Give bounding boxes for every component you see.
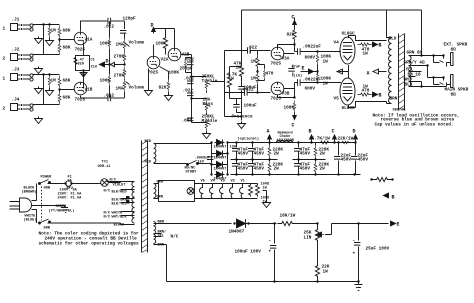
svg-text:Treble: Treble — [202, 79, 218, 84]
svg-text:1W: 1W — [263, 187, 268, 191]
svg-text:N/C: N/C — [110, 178, 117, 183]
svg-text:6BU7GH: 6BU7GH — [393, 109, 406, 113]
svg-text:V5: V5 — [334, 97, 340, 102]
svg-text:A: A — [367, 71, 370, 77]
svg-text:B: B — [392, 195, 395, 201]
svg-text:V3B: V3B — [282, 92, 290, 97]
svg-text:BLK: BLK — [405, 83, 413, 88]
svg-text:68K: 68K — [63, 96, 71, 101]
svg-text:250pF: 250pF — [180, 67, 194, 72]
svg-text:(10): (10) — [294, 74, 303, 79]
svg-text:BRN: BRN — [158, 244, 164, 248]
svg-text:8Ω: 8Ω — [451, 48, 457, 53]
svg-text:8Ω: 8Ω — [451, 93, 457, 98]
svg-text:T#1: T#1 — [102, 161, 108, 165]
svg-text:V1: V1 — [241, 180, 245, 184]
svg-text:1N4007: 1N4007 — [214, 157, 227, 161]
svg-text:BRN: BRN — [390, 97, 398, 102]
svg-text:E: E — [302, 66, 305, 72]
svg-text:B: B — [379, 93, 382, 99]
svg-text:450V: 450V — [238, 167, 249, 172]
svg-text:N/C: N/C — [104, 215, 111, 220]
svg-text:MAIN SPKR: MAIN SPKR — [445, 88, 469, 93]
svg-text:+: + — [353, 252, 356, 257]
svg-text:470: 470 — [266, 72, 274, 77]
svg-text:100K: 100K — [169, 71, 180, 76]
svg-text:1W: 1W — [236, 66, 242, 71]
svg-text:1: 1 — [3, 27, 6, 32]
svg-text:210: 210 — [91, 66, 97, 70]
svg-text:C: C — [292, 15, 295, 21]
svg-text:WHT/BLK: WHT/BLK — [112, 215, 128, 220]
svg-text:B: B — [379, 43, 382, 49]
svg-text:.0022uF: .0022uF — [303, 78, 322, 83]
svg-text:450V: 450V — [300, 152, 311, 157]
svg-text:6L6GC: 6L6GC — [342, 106, 356, 111]
svg-text:2W: 2W — [320, 167, 326, 172]
svg-text:C: C — [292, 123, 295, 129]
svg-text:.022: .022 — [183, 89, 194, 94]
svg-text:1MA: 1MA — [116, 87, 124, 92]
svg-text:1N4007: 1N4007 — [214, 146, 227, 150]
svg-text:820: 820 — [78, 63, 84, 67]
svg-text:Middle: Middle — [202, 119, 218, 124]
svg-text:Volume: Volume — [129, 41, 145, 46]
svg-text:V4: V4 — [334, 41, 340, 46]
svg-text:.J2: .J2 — [12, 48, 20, 53]
svg-text:7025: 7025 — [148, 71, 159, 76]
svg-text:2W: 2W — [320, 152, 326, 157]
svg-text:B: B — [309, 129, 312, 135]
svg-text:YEL: YEL — [158, 235, 164, 239]
svg-text:193J300R: 193J300R — [277, 139, 295, 143]
svg-text:450V: 450V — [238, 152, 249, 157]
svg-text:(BROWN): (BROWN) — [22, 190, 37, 195]
svg-text:RED: RED — [145, 140, 152, 144]
svg-text:100K: 100K — [284, 106, 295, 111]
svg-text:BLU: BLU — [389, 37, 397, 42]
svg-text:1M: 1M — [251, 77, 257, 82]
svg-text:C: C — [332, 129, 335, 135]
svg-text:Cap values in uF unless noted.: Cap values in uF unless noted. — [375, 123, 454, 128]
svg-text:D: D — [106, 59, 109, 65]
svg-text:(BLUE): (BLUE) — [24, 218, 37, 223]
svg-text:VIOLET: VIOLET — [113, 184, 127, 188]
svg-text:270K: 270K — [114, 55, 125, 60]
svg-text:1: 1 — [3, 77, 6, 82]
svg-text:GRN: GRN — [157, 196, 163, 200]
svg-text:+: + — [269, 250, 272, 255]
svg-text:E: E — [397, 222, 400, 228]
svg-text:25uF 100V: 25uF 100V — [366, 247, 390, 252]
svg-text:V2: V2 — [231, 180, 235, 184]
svg-text:BRN: BRN — [158, 221, 164, 225]
svg-text:22K/1W: 22K/1W — [338, 137, 354, 142]
svg-text:GRN: GRN — [157, 181, 163, 185]
svg-text:.022: .022 — [247, 46, 258, 51]
svg-text:BLK/YEL: BLK/YEL — [112, 202, 127, 207]
svg-text:OGR-11: OGR-11 — [98, 165, 111, 169]
svg-text:.022: .022 — [104, 25, 115, 30]
svg-text:1N4007: 1N4007 — [229, 230, 245, 235]
svg-text:1MA: 1MA — [116, 43, 124, 48]
svg-text:C1: C1 — [91, 59, 95, 63]
svg-text:18K/1W: 18K/1W — [280, 214, 296, 219]
svg-text:7025: 7025 — [271, 62, 282, 67]
svg-text:68K: 68K — [63, 29, 71, 34]
svg-text:4.7K/1W: 4.7K/1W — [312, 137, 331, 142]
svg-text:1W: 1W — [229, 77, 235, 82]
svg-text:STDBY: STDBY — [186, 171, 198, 175]
svg-text:–: – — [353, 239, 356, 244]
svg-text:68K: 68K — [63, 79, 71, 84]
svg-text:450V: 450V — [254, 152, 265, 157]
svg-text:100uF 100V: 100uF 100V — [235, 250, 262, 255]
svg-text:D: D — [353, 129, 356, 135]
svg-text:GRN/Y 4Ω: GRN/Y 4Ω — [404, 61, 425, 66]
svg-text:1W: 1W — [363, 85, 369, 90]
svg-text:1N4007: 1N4007 — [214, 168, 227, 172]
svg-text:Volume: Volume — [129, 86, 145, 91]
svg-text:.0022: .0022 — [241, 88, 255, 93]
svg-text:V2A: V2A — [161, 58, 169, 63]
svg-text:100K: 100K — [100, 42, 111, 47]
svg-text:(YT/GRN/YEL): (YT/GRN/YEL) — [49, 209, 75, 214]
svg-text:V1A: V1A — [85, 38, 93, 43]
svg-text:.003: .003 — [182, 119, 193, 124]
svg-text:600V: 600V — [305, 87, 316, 92]
svg-text:BLACK: BLACK — [114, 224, 126, 228]
svg-text:Presence: Presence — [232, 115, 253, 120]
svg-text:.J3: .J3 — [12, 68, 20, 73]
svg-text:100uF: 100uF — [244, 104, 258, 109]
svg-text:.0022uF: .0022uF — [303, 45, 322, 50]
svg-text:100K: 100K — [100, 79, 111, 84]
svg-text:LIN: LIN — [304, 236, 312, 241]
svg-text:450V: 450V — [300, 167, 311, 172]
svg-text:13A: 13A — [230, 146, 237, 150]
svg-text:6L6GC: 6L6GC — [342, 32, 356, 37]
svg-text:450V: 450V — [341, 158, 352, 163]
svg-text:120pF: 120pF — [123, 17, 137, 22]
svg-text:82K: 82K — [287, 33, 295, 38]
svg-text:SNB: SNB — [44, 187, 51, 191]
svg-text:1W: 1W — [323, 82, 329, 87]
svg-text:270K: 270K — [114, 74, 125, 79]
svg-text:.022: .022 — [104, 94, 115, 99]
svg-text:–: – — [269, 239, 272, 244]
svg-text:240V: F1.6A: 240V: F1.6A — [58, 197, 83, 201]
svg-text:SNB: SNB — [44, 227, 51, 231]
svg-text:1M: 1M — [51, 79, 57, 84]
svg-text:1M: 1M — [51, 29, 57, 34]
svg-text:1W: 1W — [323, 270, 329, 275]
svg-text:1W: 1W — [323, 60, 329, 65]
svg-text:1W: 1W — [363, 52, 369, 57]
svg-text:V1B: V1B — [85, 88, 93, 93]
svg-text:N/C: N/C — [104, 189, 111, 194]
svg-text:BLK/RED: BLK/RED — [112, 190, 128, 195]
svg-text:N/C: N/C — [171, 235, 179, 240]
svg-text:(optional): (optional) — [238, 137, 260, 142]
svg-text:47uF: 47uF — [292, 66, 301, 70]
svg-text:2: 2 — [3, 57, 6, 62]
svg-text:A: A — [267, 129, 270, 135]
svg-text:2W: 2W — [274, 167, 280, 172]
svg-text:7025: 7025 — [75, 98, 86, 103]
svg-text:.J4: .J4 — [12, 98, 20, 103]
svg-text:schematic for other operating: schematic for other operating voltages — [39, 242, 139, 247]
svg-text:68K: 68K — [63, 46, 71, 51]
svg-text:2: 2 — [3, 107, 6, 112]
svg-text:100K: 100K — [156, 42, 167, 47]
svg-text:D: D — [151, 23, 154, 29]
svg-text:V3: V3 — [221, 180, 225, 184]
svg-text:450V: 450V — [254, 167, 265, 172]
svg-text:.022: .022 — [184, 77, 195, 82]
svg-text:POWER: POWER — [41, 176, 53, 180]
svg-text:.022: .022 — [184, 58, 195, 63]
svg-text:1kV: 1kV — [198, 160, 205, 165]
svg-text:GREEN: GREEN — [56, 205, 67, 209]
svg-text:V3A: V3A — [282, 57, 290, 62]
svg-text:1M: 1M — [251, 60, 257, 65]
svg-text:Bass: Bass — [203, 102, 214, 107]
svg-text:V5: V5 — [201, 180, 205, 184]
svg-text:450V: 450V — [358, 158, 369, 163]
svg-text:RED: RED — [145, 161, 152, 165]
svg-text:.J1: .J1 — [12, 18, 20, 23]
svg-text:820: 820 — [159, 86, 167, 91]
svg-text:2W: 2W — [274, 152, 280, 157]
svg-text:600V: 600V — [305, 56, 316, 61]
svg-text:7025: 7025 — [271, 97, 282, 102]
svg-text:7025: 7025 — [75, 48, 86, 53]
svg-text:GRN 8Ω: GRN 8Ω — [407, 51, 423, 56]
